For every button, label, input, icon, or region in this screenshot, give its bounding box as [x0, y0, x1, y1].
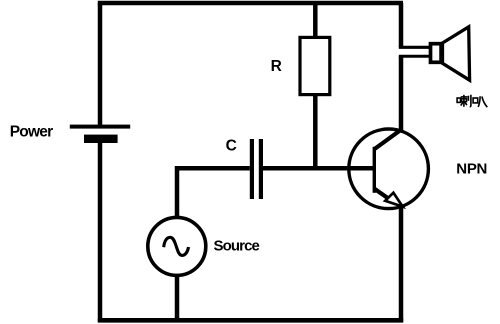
resistor R	[300, 37, 330, 94]
svg-text:Power: Power	[10, 123, 53, 140]
glyph 喇	[457, 95, 471, 107]
svg-text:Source: Source	[214, 238, 260, 255]
wire: battery positive up to top rail	[98, 3, 103, 126]
svg-text:NPN: NPN	[456, 160, 487, 177]
wire: speaker bottom terminal down to collector	[399, 56, 404, 131]
wire: top rail down to resistor	[313, 3, 318, 38]
wire: resistor down to base node	[313, 95, 318, 170]
capacitor C plates	[250, 139, 263, 199]
svg-text:R: R	[271, 58, 282, 75]
transistor Q1 (NPN)	[349, 129, 429, 209]
wire: top rail	[98, 1, 403, 6]
glyph 叭	[473, 96, 487, 107]
wire: base node left segment from capacitor to source branch corner	[177, 168, 250, 218]
speaker LS1	[431, 27, 470, 80]
AC source V1	[148, 217, 206, 275]
wire: battery negative down to bottom rail	[98, 141, 103, 322]
wire: source down to bottom rail	[175, 274, 180, 320]
wire: speaker bottom terminal	[399, 55, 431, 58]
svg-text:C: C	[226, 138, 237, 155]
wire: emitter down to bottom rail	[399, 205, 404, 322]
wire: top rail down to speaker top terminal	[399, 3, 404, 47]
battery B1 (Power)	[70, 125, 130, 143]
wire: bottom rail	[98, 318, 403, 323]
label 喇叭 (speaker)	[457, 95, 487, 107]
wire: capacitor to transistor base	[263, 166, 375, 171]
wire: speaker top terminal	[399, 46, 431, 49]
